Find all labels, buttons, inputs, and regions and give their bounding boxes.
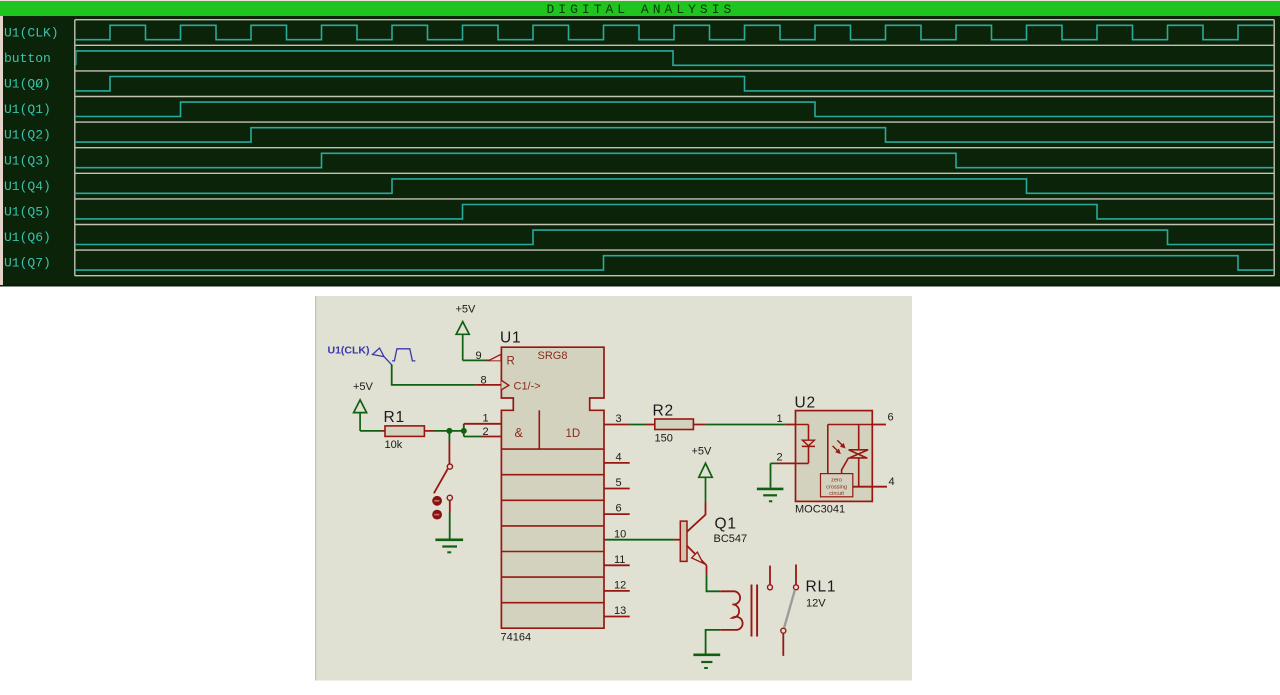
svg-text:U1(Q5): U1(Q5) bbox=[4, 205, 51, 220]
svg-text:8: 8 bbox=[481, 374, 487, 386]
button switch SW bbox=[432, 441, 452, 520]
svg-text:SRG8: SRG8 bbox=[538, 350, 568, 362]
ground (relay coil) bbox=[693, 655, 720, 668]
waveform grid frame and separators bbox=[75, 20, 1274, 276]
U1 internal cell lines bbox=[501, 410, 604, 602]
optocoupler U2 MOC3041 body bbox=[796, 411, 873, 502]
relay RL1 coil bbox=[720, 591, 742, 630]
wire coil to ground bbox=[706, 630, 721, 654]
wire pin 3 to R2 bbox=[629, 424, 646, 426]
svg-text:circuit: circuit bbox=[829, 491, 844, 497]
clock generator label U1(CLK) bbox=[328, 345, 416, 365]
svg-text:U1(Q2): U1(Q2) bbox=[4, 128, 51, 143]
svg-text:button: button bbox=[4, 51, 51, 66]
pin 12 line bbox=[604, 590, 630, 592]
svg-text:+5V: +5V bbox=[353, 381, 374, 393]
svg-text:1D: 1D bbox=[566, 428, 581, 440]
svg-text:3: 3 bbox=[616, 413, 622, 425]
svg-text:10k: 10k bbox=[385, 439, 403, 451]
power +5V symbol (R1) bbox=[354, 400, 367, 431]
svg-text:74164: 74164 bbox=[501, 632, 532, 644]
svg-text:4: 4 bbox=[616, 452, 622, 464]
ground (U2 pin 2) bbox=[757, 489, 784, 501]
title bar bbox=[0, 1, 1280, 16]
wire clock to pin 8 bbox=[392, 365, 476, 385]
svg-text:10: 10 bbox=[614, 528, 626, 540]
pin 13 line bbox=[604, 616, 630, 618]
svg-text:11: 11 bbox=[614, 554, 625, 566]
wire R1 to U1 pins 1,2 bbox=[434, 424, 464, 437]
trace U1(Q1) bbox=[76, 102, 1274, 116]
junction node dot A bbox=[446, 428, 452, 434]
wire +5V to pin 9 bbox=[463, 359, 487, 361]
wire Q1 emitter to relay coil bbox=[707, 575, 721, 592]
svg-text:6: 6 bbox=[616, 503, 622, 515]
svg-text:R2: R2 bbox=[653, 403, 674, 420]
U2 pin 2 bbox=[771, 463, 796, 487]
pin 2 line bbox=[464, 436, 502, 438]
resistor R1 bbox=[381, 426, 434, 437]
relay core bars bbox=[752, 585, 758, 637]
svg-text:U1(Q7): U1(Q7) bbox=[4, 256, 51, 271]
U2 pin 6 and internal top wire bbox=[828, 425, 886, 474]
pin 11 line bbox=[604, 564, 630, 566]
svg-text:U1(Q4): U1(Q4) bbox=[4, 179, 51, 194]
pin 1 line bbox=[464, 423, 502, 425]
trace button bbox=[76, 51, 1274, 65]
transistor Q1 BC547 bbox=[680, 503, 706, 575]
svg-text:zero: zero bbox=[831, 478, 842, 484]
SCHEMATIC-PANEL bbox=[315, 296, 912, 681]
junction node dot B bbox=[461, 428, 467, 434]
svg-text:BC547: BC547 bbox=[714, 533, 748, 545]
svg-text:R: R bbox=[507, 356, 515, 368]
svg-text:U1(Q1): U1(Q1) bbox=[4, 102, 51, 117]
resistor R2 bbox=[646, 419, 706, 430]
shift register U1 74164 body bbox=[501, 347, 604, 628]
pin 5 line bbox=[604, 488, 630, 490]
svg-text:150: 150 bbox=[655, 433, 673, 445]
svg-text:U1(Q3): U1(Q3) bbox=[4, 153, 51, 168]
svg-text:RL1: RL1 bbox=[806, 579, 837, 596]
wire junction to button bbox=[448, 431, 450, 441]
trace U1(Q2) bbox=[76, 128, 1274, 142]
U2 pin 1 bbox=[785, 424, 795, 426]
pin 3 line bbox=[604, 424, 629, 426]
U1 clock chevron bbox=[501, 380, 508, 390]
svg-text:12V: 12V bbox=[806, 597, 826, 609]
U2 light arrows bbox=[833, 440, 845, 453]
svg-text:U1(CLK): U1(CLK) bbox=[4, 25, 59, 40]
wire +5V to R1 bbox=[360, 430, 381, 432]
trace U1(Q7) bbox=[76, 256, 1274, 270]
pin 4 line bbox=[604, 462, 630, 464]
power +5V symbol (Q1) bbox=[699, 463, 712, 502]
svg-text:2: 2 bbox=[777, 452, 783, 464]
svg-text:12: 12 bbox=[614, 580, 626, 592]
svg-text:U1(QØ): U1(QØ) bbox=[4, 77, 51, 92]
svg-text:1: 1 bbox=[483, 413, 489, 425]
svg-text:+5V: +5V bbox=[456, 304, 477, 316]
U2 zero crossing circuit box bbox=[821, 474, 853, 497]
trace U1(Q4) bbox=[76, 179, 1274, 193]
svg-text:9: 9 bbox=[476, 350, 482, 362]
trace U1(Q5) bbox=[76, 205, 1274, 219]
svg-text:1: 1 bbox=[777, 413, 783, 425]
U2 internal LED diode bbox=[802, 440, 815, 446]
svg-text:crossing: crossing bbox=[826, 484, 847, 490]
top window edge line bbox=[0, 0, 1280, 1]
pin 6 line bbox=[604, 513, 630, 515]
U2 pin 4 bbox=[853, 486, 887, 488]
svg-text:&: & bbox=[515, 426, 524, 440]
trace U1(Q6) bbox=[76, 230, 1274, 244]
trace U1(Q3) bbox=[76, 153, 1274, 167]
pin 9 line with reset marker bbox=[487, 354, 502, 360]
svg-text:5: 5 bbox=[616, 477, 622, 489]
svg-text:4: 4 bbox=[889, 476, 895, 488]
svg-text:R1: R1 bbox=[384, 409, 405, 426]
pin 10 line bbox=[604, 539, 607, 541]
svg-text:6: 6 bbox=[888, 411, 894, 423]
svg-text:DIGITAL ANALYSIS: DIGITAL ANALYSIS bbox=[547, 2, 736, 17]
svg-text:U1(Q6): U1(Q6) bbox=[4, 230, 51, 245]
svg-text:U2: U2 bbox=[795, 395, 816, 412]
U2 internal LED branch bbox=[796, 425, 809, 464]
digital analysis panel background bbox=[0, 1, 1280, 287]
svg-text:MOC3041: MOC3041 bbox=[795, 503, 845, 515]
relay RL1 contact bbox=[768, 565, 799, 656]
pin 8 line bbox=[475, 384, 501, 386]
left window edge strip bbox=[0, 16, 3, 285]
U2 internal triac bbox=[842, 450, 869, 487]
svg-text:U1: U1 bbox=[500, 329, 521, 346]
svg-text:2: 2 bbox=[483, 426, 489, 438]
ground (button) bbox=[435, 540, 463, 553]
wire button to ground bbox=[449, 513, 451, 540]
wire pin 10 to Q1 base bbox=[607, 539, 681, 541]
trace U1(Q0) bbox=[76, 77, 1274, 91]
wire R2 to U2 pin 1 bbox=[706, 424, 786, 426]
trace U1(CLK) bbox=[76, 25, 1274, 39]
svg-text:13: 13 bbox=[614, 605, 626, 617]
power +5V symbol (pin 9) bbox=[456, 322, 469, 361]
svg-text:Q1: Q1 bbox=[715, 516, 737, 533]
svg-text:C1/->: C1/-> bbox=[514, 380, 541, 392]
svg-text:U1(CLK): U1(CLK) bbox=[328, 345, 370, 357]
svg-text:+5V: +5V bbox=[692, 445, 713, 457]
